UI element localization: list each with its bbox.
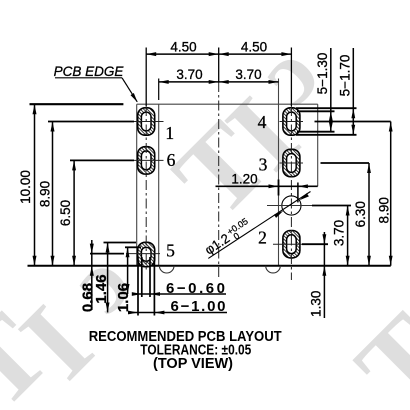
bottom PCB edge line	[28, 265, 391, 267]
svg-text:4.50: 4.50	[241, 40, 267, 55]
pad 4	[283, 108, 300, 135]
pad 1	[138, 108, 155, 135]
dimension 1.30 bottom right	[302, 243, 328, 245]
pad4 centerline	[280, 121, 304, 123]
pad5 centerline	[126, 253, 160, 255]
pad 5	[138, 242, 155, 266]
edge notch left	[159, 266, 174, 273]
dimension 3.70 top	[159, 81, 279, 83]
phi1.2 half-hole circle	[282, 196, 301, 215]
1.20 left extension tick	[278, 180, 280, 196]
dimension 6-0.60	[132, 293, 226, 295]
svg-text:1: 1	[165, 123, 174, 143]
dimension 10.00 left	[30, 103, 124, 105]
pad 6	[138, 147, 155, 174]
PCB EDGE leader	[122, 78, 137, 102]
pad1 centerline	[134, 121, 164, 123]
dimension 6-1.00	[128, 312, 227, 314]
dimension 3.70 right	[267, 205, 312, 207]
dimension 8.90 right	[315, 121, 391, 123]
svg-text:1.30: 1.30	[309, 291, 324, 317]
svg-text:3.70: 3.70	[176, 67, 202, 82]
pad3 centerline	[280, 162, 304, 164]
right column centerline	[290, 106, 292, 280]
svg-text:6: 6	[167, 150, 176, 170]
svg-text:3.70: 3.70	[331, 220, 346, 246]
svg-text:2: 2	[258, 227, 267, 247]
body outline right lower edge + 3.70 extension	[278, 79, 280, 266]
svg-text:8.90: 8.90	[376, 197, 391, 223]
dimension 4.50 top	[146, 53, 291, 55]
extension pad5 inner-top	[125, 246, 141, 248]
pad4 extension lines	[296, 107, 357, 109]
center vertical extension	[218, 48, 220, 83]
extension pad5 center	[90, 253, 124, 255]
svg-text:4.50: 4.50	[170, 40, 196, 55]
svg-text:6−1.00: 6−1.00	[171, 298, 226, 315]
dimension 6.50 left	[70, 159, 134, 161]
svg-text:6.50: 6.50	[58, 200, 73, 226]
dimension 1.46	[107, 243, 109, 313]
svg-text:3.70: 3.70	[235, 67, 261, 82]
svg-text:3: 3	[259, 154, 268, 174]
extension pad5 outer-top	[104, 242, 137, 244]
svg-text:10.00: 10.00	[18, 170, 33, 204]
phi1.2 leader	[208, 192, 310, 259]
svg-text:5: 5	[166, 240, 175, 260]
svg-text:(TOP VIEW): (TOP VIEW)	[153, 356, 233, 372]
PCB EDGE underline	[55, 77, 122, 79]
svg-text:4: 4	[258, 112, 267, 132]
body outline top edge	[137, 103, 318, 105]
svg-text:1.20: 1.20	[231, 171, 257, 186]
svg-text:PCB EDGE: PCB EDGE	[54, 64, 125, 79]
dimension 5-1.70	[352, 48, 354, 135]
edge notch right	[266, 266, 281, 273]
pad2 centerline	[273, 243, 302, 245]
left column centerline	[145, 106, 147, 272]
body outline left inner edge	[158, 104, 160, 266]
dimension 6.30 right	[321, 162, 370, 164]
dimension 5-1.30	[330, 48, 332, 132]
svg-text:1.46: 1.46	[93, 274, 110, 303]
pad5 slot extension lines	[141, 257, 143, 297]
left column extension	[145, 48, 147, 107]
body outline left outer edge	[136, 104, 138, 266]
right column extension	[290, 48, 292, 107]
svg-text:1.06: 1.06	[115, 283, 132, 312]
svg-text:8.90: 8.90	[38, 181, 53, 207]
dimension 1.06	[127, 247, 129, 294]
dimension 8.90 left	[48, 121, 134, 123]
svg-text:6.30: 6.30	[353, 201, 368, 227]
pad6 centerline	[134, 159, 164, 161]
dimension 0.68	[91, 240, 93, 310]
svg-text:5−1.30: 5−1.30	[315, 53, 330, 95]
center vertical centerline	[218, 82, 220, 278]
pad 2	[283, 231, 300, 258]
body outline right outer edge	[317, 104, 319, 186]
svg-text:5−1.70: 5−1.70	[338, 55, 353, 97]
dimension 1.20 / step edge	[216, 185, 318, 187]
pad 3	[283, 149, 300, 176]
